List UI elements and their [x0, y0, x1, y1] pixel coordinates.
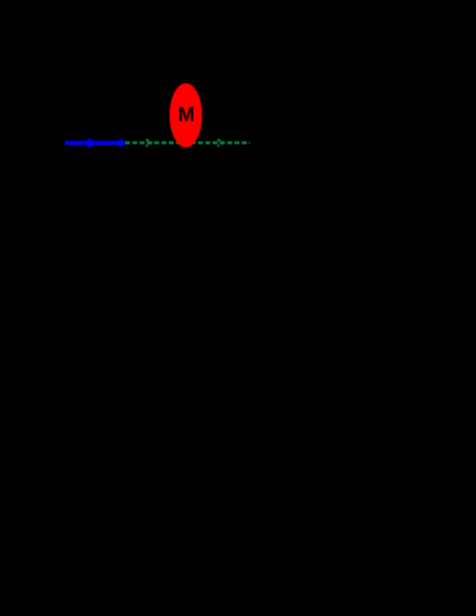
svg-text:M: M	[178, 104, 195, 126]
